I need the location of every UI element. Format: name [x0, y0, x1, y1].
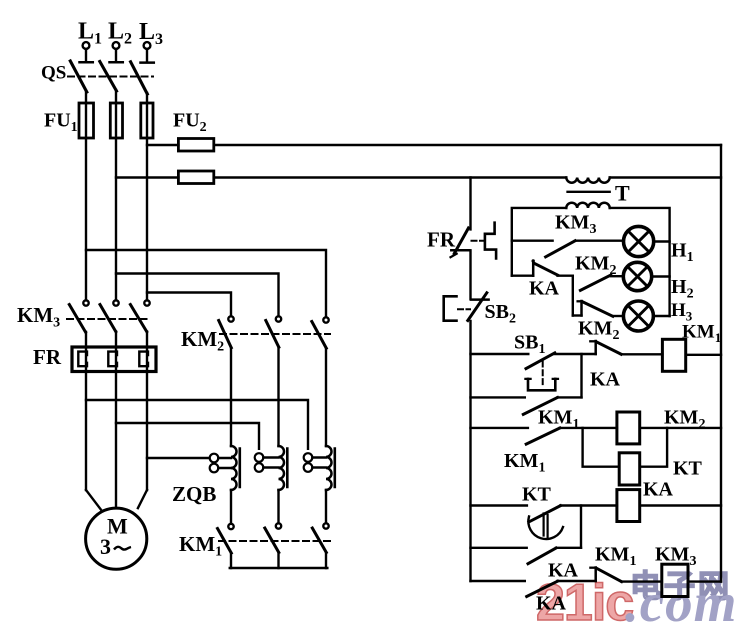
svg-text:KA: KA — [548, 560, 579, 582]
svg-text:3: 3 — [100, 534, 111, 559]
svg-text:T: T — [615, 181, 630, 206]
svg-text:KA: KA — [643, 479, 674, 501]
svg-text:KT: KT — [673, 458, 703, 480]
svg-text:FR: FR — [427, 228, 456, 252]
svg-text:ZQB: ZQB — [172, 482, 216, 506]
svg-text:FR: FR — [33, 345, 62, 369]
svg-text:KT: KT — [522, 484, 552, 506]
svg-text:KA: KA — [529, 278, 560, 300]
svg-text:KA: KA — [536, 593, 567, 615]
svg-text:QS: QS — [41, 63, 66, 84]
svg-text:KA: KA — [590, 369, 621, 391]
